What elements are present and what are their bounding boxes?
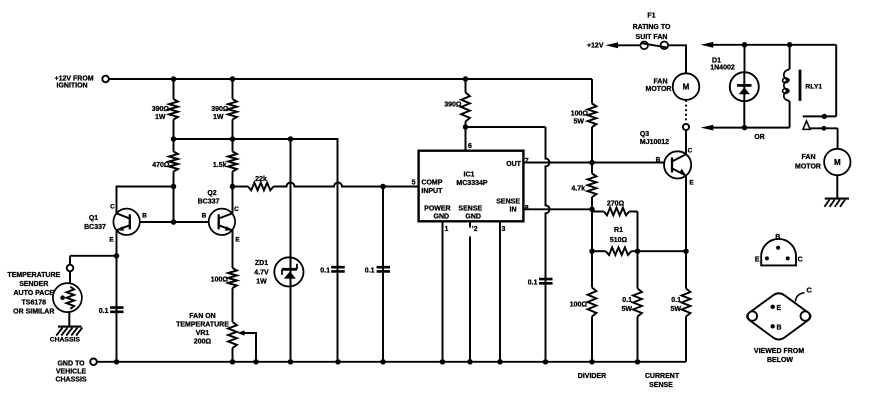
label TEMPERATURE SENDER xyxy=(7,272,60,316)
svg-text:B: B xyxy=(656,157,661,164)
svg-text:5W: 5W xyxy=(671,306,682,313)
label R5 1.5k xyxy=(213,162,227,169)
label C3 0.1 xyxy=(365,267,375,274)
label pin 6 xyxy=(468,143,472,150)
label CURRENT SENSE xyxy=(645,373,680,389)
wire pin 1 to ground xyxy=(442,221,444,361)
svg-text:MC3334P: MC3334P xyxy=(456,180,487,187)
svg-text:BELOW: BELOW xyxy=(767,357,793,364)
svg-text:5W: 5W xyxy=(622,306,633,313)
transistor Q1 circle xyxy=(113,209,139,235)
svg-text:E: E xyxy=(777,305,782,312)
svg-text:390Ω: 390Ω xyxy=(211,106,229,113)
svg-text:B: B xyxy=(777,325,782,332)
node sender junction xyxy=(114,253,120,258)
label ZD1 4.7V 1W xyxy=(254,260,269,286)
label COMP INPUT xyxy=(421,179,443,195)
label R8 390R xyxy=(444,102,462,109)
wire coil bottom return xyxy=(789,101,791,128)
diode D1 triangle xyxy=(739,87,750,94)
arrow +12V feed xyxy=(605,42,640,48)
svg-text:22k: 22k xyxy=(255,176,267,183)
svg-text:E: E xyxy=(689,179,694,186)
svg-text:CHASSIS: CHASSIS xyxy=(55,376,86,383)
node rail junction R8 xyxy=(463,76,469,82)
svg-text:M: M xyxy=(834,158,841,167)
svg-text:100Ω: 100Ω xyxy=(571,110,589,117)
capacitor C1 0.1 xyxy=(110,308,124,312)
wire 470R to base rail xyxy=(173,187,175,223)
package TO-3 hole left xyxy=(748,311,757,320)
wire R8 junction to C4 column xyxy=(466,126,546,128)
label D1 1N4002 xyxy=(710,57,735,71)
label Q3 MJ10012 xyxy=(640,131,669,146)
svg-text:C: C xyxy=(807,286,813,295)
label TO-3 E xyxy=(777,305,782,312)
svg-text:1W: 1W xyxy=(155,114,166,121)
label FAN MOTOR 1 xyxy=(646,79,672,93)
wire through ZD1 xyxy=(290,257,292,286)
label POWER GND xyxy=(424,205,450,220)
label GND TO VEHICLE CHASSIS xyxy=(55,360,86,383)
svg-text:AUTO PACE: AUTO PACE xyxy=(14,290,55,297)
node comp input junction C3 xyxy=(380,184,386,190)
label +12V fan supply xyxy=(587,43,604,50)
svg-text:Q3: Q3 xyxy=(640,131,649,138)
svg-text:MOTOR: MOTOR xyxy=(795,164,821,171)
transistor Q3 base bar xyxy=(671,157,673,172)
svg-text:POWER: POWER xyxy=(424,205,450,212)
wire through D1 xyxy=(743,72,745,101)
label IC1 MC3334P xyxy=(456,171,487,187)
svg-text:TEMPERATURE: TEMPERATURE xyxy=(7,272,60,279)
svg-text:C: C xyxy=(110,204,115,211)
svg-text:200Ω: 200Ω xyxy=(194,338,212,345)
resistor R8 390R xyxy=(461,79,470,127)
svg-text:RATING TO: RATING TO xyxy=(633,24,671,31)
node D1 top xyxy=(742,42,748,48)
diode D1 cathode bar xyxy=(737,84,751,87)
svg-text:390Ω: 390Ω xyxy=(152,106,170,113)
svg-text:CURRENT: CURRENT xyxy=(645,373,680,380)
label R1 510R xyxy=(610,227,628,244)
label C4 0.1 xyxy=(528,279,538,286)
node ground rail at VR1 element xyxy=(230,359,236,365)
svg-text:+12V FROM: +12V FROM xyxy=(55,75,94,82)
arrow alt top xyxy=(701,42,837,48)
label SENSE GND xyxy=(458,205,482,220)
svg-text:1W: 1W xyxy=(256,279,267,286)
trimpot VR1 element xyxy=(228,322,237,362)
label Q2 E xyxy=(235,237,240,244)
wire 1.5k to Q2 collector xyxy=(232,187,234,214)
svg-text:TS6178: TS6178 xyxy=(22,299,47,306)
package TO-3 outline xyxy=(747,293,811,339)
label CHASSIS under sender xyxy=(50,336,81,343)
svg-text:BC337: BC337 xyxy=(198,199,220,206)
wire C4 column with hops xyxy=(546,127,550,362)
resistor R2 390R 1W xyxy=(169,79,178,139)
label Q1 B xyxy=(142,213,147,220)
label pin 7 xyxy=(525,158,529,165)
diode D1 circle xyxy=(730,72,759,101)
wire pin 3 to ground xyxy=(499,221,501,361)
svg-text:C: C xyxy=(234,206,239,213)
label VR1 FAN ON TEMPERATURE xyxy=(176,313,229,346)
label FAN MOTOR 2 xyxy=(795,154,821,170)
wire sender terminal to sender xyxy=(69,271,71,283)
transistor Q3 emitter stroke xyxy=(672,168,686,175)
label motor 1 M xyxy=(683,83,690,92)
label R14 0.1 5W xyxy=(671,297,682,313)
svg-text:MOTOR: MOTOR xyxy=(646,86,672,93)
svg-text:1W: 1W xyxy=(213,114,224,121)
label +12V FROM IGNITION xyxy=(55,75,94,89)
node SENSE junction xyxy=(589,207,595,213)
resistor R10 4.7k xyxy=(588,163,597,210)
svg-text:BC337: BC337 xyxy=(84,224,106,231)
arrow alt bottom xyxy=(701,125,790,131)
resistor R14 0.1 5W current sense xyxy=(682,251,691,362)
ground chassis motor 2 xyxy=(824,199,849,207)
label pin 5 xyxy=(412,179,416,186)
label TO-92 B xyxy=(775,234,780,241)
transistor Q2 emitter stroke xyxy=(219,225,233,230)
label R2 390R 1W xyxy=(152,106,170,121)
label TO-92 C xyxy=(798,256,803,263)
label Q3 E xyxy=(689,179,694,186)
temperature sender circle xyxy=(53,283,82,312)
resistor R12 270R xyxy=(592,208,638,216)
label C1 0.1 xyxy=(99,308,109,315)
relay contact moving stub xyxy=(803,121,838,131)
wire pin 2 to ground xyxy=(469,221,471,361)
wire OUT pin7 to Q3 base xyxy=(523,162,671,164)
node 22k junction xyxy=(230,184,236,190)
node mid rail junction ZD1 xyxy=(288,136,294,142)
resistor R3 390R 1W xyxy=(228,79,237,139)
svg-text:SUIT FAN: SUIT FAN xyxy=(636,34,668,41)
relay contact fixed stub xyxy=(803,114,837,119)
resistor R13 0.1 5W divider xyxy=(633,251,642,362)
svg-text:C: C xyxy=(688,148,693,155)
label SENSE IN xyxy=(496,199,520,214)
label Q3 B xyxy=(656,157,661,164)
wire Q2 emitter down xyxy=(232,230,234,268)
label pin 3 xyxy=(502,226,506,233)
package TO-3 pin E dot xyxy=(771,305,775,309)
node ground rail at C1 xyxy=(114,359,120,365)
svg-text:E: E xyxy=(109,237,114,244)
node D1 bottom xyxy=(742,125,748,131)
svg-text:0.1: 0.1 xyxy=(365,267,375,274)
node ground rail at pin2 xyxy=(467,359,473,365)
label TO-92 E xyxy=(755,256,760,263)
label R4 470R xyxy=(152,162,170,169)
wire Q1 emitter down xyxy=(116,230,118,361)
transistor Q2 base bar xyxy=(218,214,220,229)
relay RLY1 coil xyxy=(783,69,790,101)
package TO-3 pin B dot xyxy=(771,324,775,328)
node ground rail at VR1 wiper xyxy=(253,359,259,365)
node mid rail junction 1k5 xyxy=(230,136,236,142)
resistor R9 100R 5W xyxy=(588,79,597,163)
wire SENSE IN pin8 xyxy=(523,208,592,210)
wire contact feed xyxy=(835,45,837,117)
node Q3 emitter junction xyxy=(683,248,689,254)
svg-text:100Ω: 100Ω xyxy=(211,277,229,284)
svg-text:1N4002: 1N4002 xyxy=(710,65,735,72)
capacitor C2 0.1 xyxy=(331,267,345,271)
node base junction xyxy=(171,219,177,225)
svg-text:SENDER: SENDER xyxy=(19,281,48,288)
node R8 bottom junction xyxy=(463,124,469,130)
svg-text:IN: IN xyxy=(510,207,517,214)
svg-text:DIVIDER: DIVIDER xyxy=(578,373,606,380)
svg-text:M: M xyxy=(683,83,690,92)
capacitor C3 0.1 xyxy=(377,267,391,271)
label R7 22k xyxy=(255,176,267,183)
trimpot VR1 wiper xyxy=(237,330,256,361)
wire relay coil feed xyxy=(789,45,791,70)
node relay coil top xyxy=(787,42,793,48)
svg-text:470Ω: 470Ω xyxy=(152,162,170,169)
package TO-3 case arrow xyxy=(795,293,804,302)
label TO-3 C xyxy=(807,286,813,295)
node ground rail at C3 xyxy=(380,359,386,365)
node R1 right junction xyxy=(635,248,641,254)
transistor Q3 circle xyxy=(664,151,691,178)
wire D1 bottom xyxy=(743,101,745,127)
svg-text:OUT: OUT xyxy=(506,161,522,168)
svg-text:R1: R1 xyxy=(614,227,623,234)
svg-text:C: C xyxy=(798,256,803,263)
resistor R6 100R xyxy=(228,268,237,322)
wire contact to motor 2 xyxy=(837,128,839,149)
svg-text:0.1: 0.1 xyxy=(528,279,538,286)
op-amp IC1 MC3334P box xyxy=(419,151,524,222)
label TO-3 B xyxy=(777,325,782,332)
fuse F1 xyxy=(640,42,668,50)
svg-text:VIEWED FROM: VIEWED FROM xyxy=(754,348,804,355)
svg-text:B: B xyxy=(775,234,780,241)
resistor R5 1.5k xyxy=(228,139,237,187)
node rail junction R2 xyxy=(171,76,177,82)
wire 270R to R1 xyxy=(637,212,639,252)
svg-text:B: B xyxy=(142,213,147,220)
node ground rail at pin3 xyxy=(497,359,503,365)
svg-text:IGNITION: IGNITION xyxy=(57,83,88,90)
resistor R11 100R divider xyxy=(588,251,597,362)
label R3 390R 1W xyxy=(211,106,229,121)
svg-text:CHASSIS: CHASSIS xyxy=(50,336,81,343)
resistor R1 510R xyxy=(592,247,686,255)
svg-text:5: 5 xyxy=(412,179,416,186)
svg-text:VEHICLE: VEHICLE xyxy=(56,368,87,375)
svg-text:OR SIMILAR: OR SIMILAR xyxy=(13,309,54,316)
wire D1 anode xyxy=(744,45,746,72)
label R10 4.7k xyxy=(571,186,585,193)
svg-text:SENSE: SENSE xyxy=(458,205,482,212)
package TO-92 pin E dot xyxy=(765,256,769,260)
wire +12V supply rail xyxy=(109,78,592,80)
svg-text:E: E xyxy=(755,256,760,263)
svg-text:510Ω: 510Ω xyxy=(610,237,628,244)
wire motor 1 dashed link xyxy=(685,100,687,123)
svg-text:MJ10012: MJ10012 xyxy=(640,139,669,146)
node divider top junction xyxy=(589,248,595,254)
svg-text:+12V: +12V xyxy=(587,43,604,50)
resistor R4 470R xyxy=(169,139,178,187)
package TO-92 outline xyxy=(761,239,796,266)
label Q1 C xyxy=(110,204,115,211)
label Q1 E xyxy=(109,237,114,244)
svg-text:5W: 5W xyxy=(574,118,585,125)
capacitor C4 0.1 xyxy=(539,279,553,283)
svg-text:RLY1: RLY1 xyxy=(805,84,822,91)
package TO-92 pin C dot xyxy=(786,256,790,260)
transistor Q2 collector stroke xyxy=(219,213,233,218)
svg-text:IC1: IC1 xyxy=(464,171,475,178)
svg-text:7: 7 xyxy=(525,158,529,165)
label OR xyxy=(754,134,765,141)
node ground rail at C4 xyxy=(543,359,549,365)
svg-text:D1: D1 xyxy=(712,57,721,64)
transistor Q2 circle xyxy=(209,209,235,235)
motor fan 2 circle xyxy=(824,149,850,175)
label Q3 C xyxy=(688,148,693,155)
label R6 100R xyxy=(211,277,229,284)
svg-text:’2: ’2 xyxy=(472,226,478,233)
wire motor 2 to ground xyxy=(836,175,838,198)
transistor Q3 collector stroke xyxy=(672,154,686,161)
label Q2 C xyxy=(234,206,239,213)
package TO-3 hole right xyxy=(801,311,810,320)
wire Q3 emitter down xyxy=(685,176,687,252)
wire Q1 base to Q2 base xyxy=(140,221,209,223)
zener ZD1 circle xyxy=(274,257,303,286)
svg-text:SENSE: SENSE xyxy=(649,382,673,389)
wire pin 6 feed xyxy=(465,127,467,151)
svg-text:1.5k: 1.5k xyxy=(213,162,227,169)
label VIEWED FROM BELOW xyxy=(754,348,804,364)
wire sender to emitter xyxy=(70,256,117,265)
terminal motor link xyxy=(683,124,689,130)
label C2 0.1 xyxy=(320,267,330,274)
label R9 100R 5W xyxy=(571,110,589,125)
svg-text:FAN ON: FAN ON xyxy=(189,313,215,320)
svg-text:GND: GND xyxy=(465,213,481,220)
svg-text:GND: GND xyxy=(434,213,450,220)
svg-text:F1: F1 xyxy=(647,12,655,19)
node ground rail at divider xyxy=(589,359,595,365)
svg-text:4.7V: 4.7V xyxy=(254,270,269,277)
svg-text:FAN: FAN xyxy=(654,79,668,86)
svg-text:E: E xyxy=(235,237,240,244)
label R11 100R xyxy=(570,302,588,309)
wire ZD1 top xyxy=(290,139,292,257)
label OUT xyxy=(506,161,522,168)
relay RLY1 core bar xyxy=(799,70,802,101)
label pin 8 xyxy=(525,205,529,212)
svg-text:270Ω: 270Ω xyxy=(607,200,625,207)
svg-text:0.1: 0.1 xyxy=(99,308,109,315)
label pin 2 xyxy=(472,226,478,233)
label DIVIDER xyxy=(578,373,606,380)
svg-text:3: 3 xyxy=(502,226,506,233)
label RLY1 xyxy=(805,84,822,91)
label pin 1 xyxy=(445,226,449,233)
temperature sender contact dot xyxy=(60,295,65,300)
label Q2 B xyxy=(202,213,207,220)
node ground rail at ZD1 xyxy=(288,359,294,365)
label F1 RATING TO SUIT FAN xyxy=(633,12,671,41)
svg-text:100Ω: 100Ω xyxy=(570,302,588,309)
svg-text:SENSE: SENSE xyxy=(496,199,520,206)
label Q2 BC337 xyxy=(198,190,220,206)
label motor 2 M xyxy=(834,158,841,167)
svg-text:TEMPERATURE: TEMPERATURE xyxy=(176,321,229,328)
svg-text:0.1: 0.1 xyxy=(622,297,632,304)
terminal gnd to vehicle chassis xyxy=(90,359,97,366)
wire ZD1 bottom xyxy=(290,286,292,361)
temperature sender element xyxy=(67,287,75,309)
wire mid rail xyxy=(174,139,338,362)
wire sender to chassis xyxy=(68,312,70,326)
node Q1 collector junction xyxy=(171,184,177,190)
svg-text:6: 6 xyxy=(468,143,472,150)
svg-text:4.7k: 4.7k xyxy=(571,186,585,193)
node ground rail at C2 xyxy=(335,359,341,365)
node mid rail junction 470R xyxy=(171,136,177,142)
ground chassis under sender xyxy=(56,327,82,336)
node ground rail at sense divider xyxy=(635,359,641,365)
svg-text:0.1: 0.1 xyxy=(320,267,330,274)
svg-text:B: B xyxy=(202,213,207,220)
svg-text:Q1: Q1 xyxy=(89,215,98,222)
svg-text:OR: OR xyxy=(754,134,765,141)
wire C3 column xyxy=(382,187,384,362)
svg-text:Q2: Q2 xyxy=(207,190,216,197)
transistor Q1 emitter stroke xyxy=(116,225,130,230)
svg-text:INPUT: INPUT xyxy=(421,188,443,195)
label R13 0.1 5W xyxy=(622,297,633,313)
svg-text:ZD1: ZD1 xyxy=(255,260,268,267)
transistor Q1 collector stroke xyxy=(117,213,130,218)
label R12 270R xyxy=(607,200,625,207)
resistor R7 22k xyxy=(233,183,274,191)
svg-text:0.1: 0.1 xyxy=(671,297,681,304)
wire sense junction down xyxy=(591,209,593,251)
svg-text:VR1: VR1 xyxy=(196,330,210,337)
wire Q1 collector up xyxy=(117,187,174,214)
svg-text:COMP: COMP xyxy=(421,179,442,186)
package TO-92 pin B dot xyxy=(776,246,780,250)
svg-text:390Ω: 390Ω xyxy=(444,102,462,109)
terminal +12V ignition input xyxy=(102,76,109,83)
label Q1 BC337 xyxy=(84,215,106,231)
wire comp input xyxy=(274,183,419,187)
wire link to Q3 collector xyxy=(685,130,687,154)
motor fan 1 circle xyxy=(673,73,700,100)
node rail junction R3 xyxy=(230,76,236,82)
zener ZD1 anode triangle xyxy=(284,271,296,278)
svg-text:FAN: FAN xyxy=(802,154,816,161)
node ground rail at pin1 xyxy=(440,359,446,365)
node OUT junction xyxy=(589,160,595,166)
svg-text:GND TO: GND TO xyxy=(57,360,85,367)
wire fuse to fan motor xyxy=(668,45,686,73)
